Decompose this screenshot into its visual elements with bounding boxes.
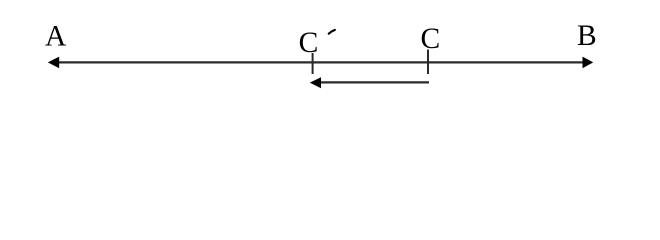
- svg-text:C: C: [299, 27, 319, 59]
- svg-text:B: B: [577, 20, 597, 52]
- svg-text:C: C: [421, 23, 441, 55]
- svg-text:A: A: [45, 21, 67, 53]
